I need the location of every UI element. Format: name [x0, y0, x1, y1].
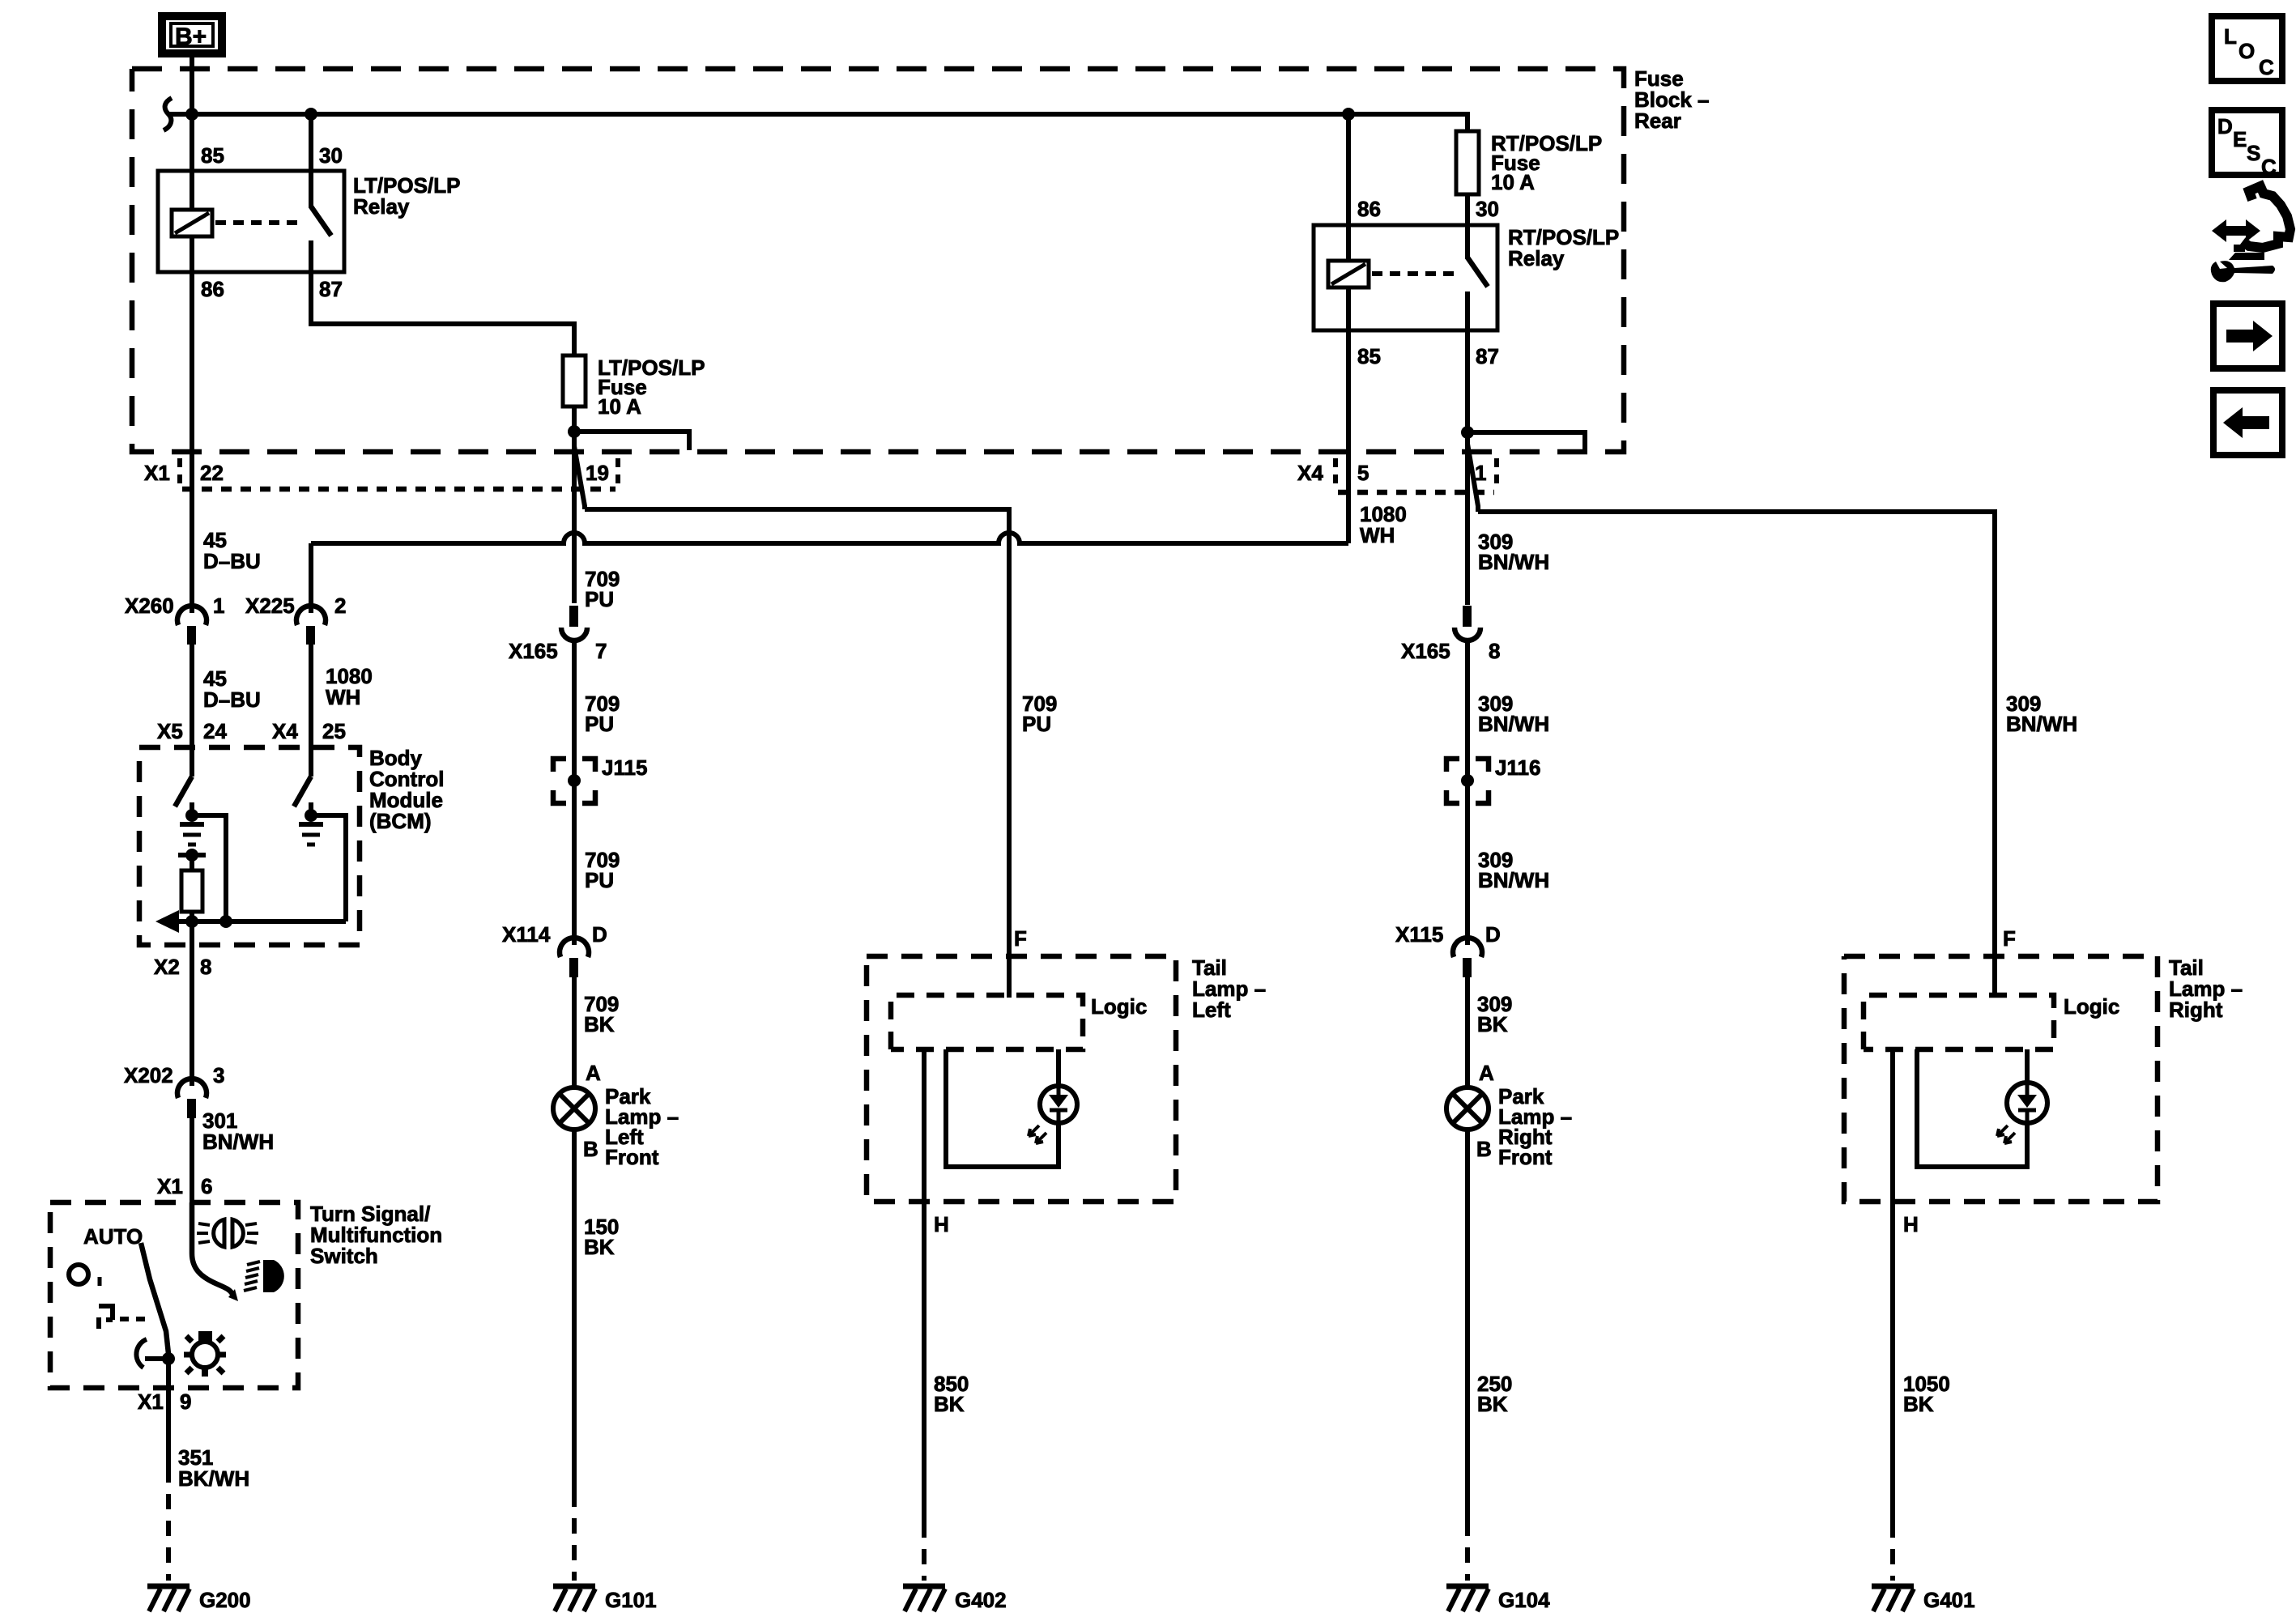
wire sense branch right of pin24: [192, 815, 226, 921]
connector X4 row labels: [1297, 458, 1497, 492]
node junction below RT relay 87: [1461, 426, 1474, 439]
svg-text:B: B: [583, 1137, 598, 1161]
wire LT fuse down: [572, 406, 577, 446]
svg-text:30: 30: [1476, 197, 1499, 221]
svg-text:X4: X4: [1297, 461, 1323, 485]
svg-text:D: D: [1485, 922, 1501, 947]
svg-text:G104: G104: [1498, 1588, 1550, 1612]
svg-text:X2: X2: [154, 955, 180, 979]
bar node above resistor: [178, 853, 206, 857]
fuse block - rear dashed box: [132, 66, 1710, 452]
svg-text:22: 22: [200, 461, 224, 485]
ground G101: [553, 1586, 657, 1612]
wire sense branch right of pin25: [311, 815, 346, 921]
svg-text:85: 85: [201, 143, 224, 168]
svg-text:Logic: Logic: [1091, 994, 1147, 1019]
wire 1080 WH from X225 to X4:5 with hops: [311, 533, 1348, 543]
svg-text:87: 87: [319, 277, 343, 301]
wire LT relay 86 down to X1:22: [190, 272, 194, 489]
svg-text:J116: J116: [1495, 755, 1540, 780]
detent symbol: [99, 1306, 113, 1329]
icon next arrow box: [2213, 304, 2282, 368]
wire X1:22 to X260: [190, 489, 194, 613]
svg-text:X260: X260: [125, 594, 174, 618]
svg-text:AUTO: AUTO: [83, 1224, 143, 1249]
wire step to border (pin19 area): [574, 432, 689, 450]
wire RT relay 87 down: [1465, 330, 1470, 444]
svg-text:WH: WH: [1360, 523, 1395, 547]
connector X1 row labels: [144, 458, 618, 489]
relay LT switch: [309, 171, 313, 208]
svg-text:Relay: Relay: [1508, 246, 1565, 270]
svg-text:H: H: [1903, 1212, 1919, 1236]
wire J115 to X114: [572, 781, 577, 945]
svg-text:A: A: [1479, 1061, 1494, 1085]
connector X115 pin D: [1395, 922, 1501, 977]
splice J115: [553, 755, 647, 803]
relay LT coil: [190, 174, 194, 272]
svg-text:X1: X1: [144, 461, 170, 485]
wire bus to LT relay pin30: [309, 114, 313, 174]
svg-text:85: 85: [1357, 344, 1381, 368]
svg-text:9: 9: [180, 1389, 191, 1414]
logic box left dashed: [891, 994, 1147, 1049]
ground G104: [1446, 1586, 1550, 1612]
svg-text:19: 19: [586, 461, 609, 485]
relay RT/POS/LP: [1314, 197, 1619, 368]
svg-text:X1: X1: [138, 1389, 164, 1414]
connector X165 pin 8: [1401, 606, 1500, 663]
relay LT link dashed: [215, 220, 298, 225]
wire X225 to X4:25: [309, 645, 313, 777]
wire main bus: [168, 114, 1467, 131]
ground symbol internal right: [299, 824, 323, 845]
splice J116: [1446, 755, 1540, 803]
wire internal horizontal with arrow: [160, 919, 346, 924]
switch blade X5:24 in BCM: [175, 777, 192, 806]
node junction bus/relay30: [305, 108, 317, 121]
svg-text:PU: PU: [585, 712, 614, 736]
headlamp low beam icon: [244, 1260, 284, 1292]
svg-text:BK: BK: [1477, 1392, 1508, 1416]
wire dashed to G402: [922, 1522, 926, 1581]
svg-text:BN/WH: BN/WH: [2006, 712, 2077, 736]
BCM body control module dashed box: [139, 746, 444, 945]
fuse LT/POS/LP 10A: [563, 355, 705, 419]
wire pin1 branch to tail lamp right F: [1478, 512, 1995, 998]
auto sensor gear icon: [184, 1331, 226, 1377]
contact stub and node: [190, 802, 194, 815]
svg-text:8: 8: [200, 955, 211, 979]
svg-text:10 A: 10 A: [598, 394, 641, 419]
turn signal / multifunction switch dashed box: [50, 1202, 442, 1388]
wire LT relay 87 to LT fuse: [311, 272, 574, 355]
wire X4:1 down to X165:8: [1465, 444, 1470, 605]
svg-text:G402: G402: [955, 1588, 1007, 1612]
svg-text:BK: BK: [934, 1392, 965, 1416]
svg-text:(BCM): (BCM): [369, 809, 432, 833]
wire X165:7 to J115: [572, 638, 577, 781]
relay RT link dashed: [1372, 271, 1455, 276]
svg-text:Right: Right: [2169, 998, 2223, 1022]
tail lamp right dashed box: [1844, 955, 2243, 1202]
svg-text:B: B: [1476, 1137, 1492, 1161]
ground G402: [903, 1586, 1007, 1612]
wire J116 to X115: [1465, 781, 1470, 945]
svg-text:25: 25: [322, 719, 346, 743]
tail lamp left dashed box: [867, 955, 1266, 1202]
svg-text:X5: X5: [157, 719, 183, 743]
svg-text:BN/WH: BN/WH: [1478, 868, 1549, 892]
wire X114 to park lamp A: [572, 977, 577, 1087]
svg-text:BK: BK: [1903, 1392, 1934, 1416]
svg-text:BN/WH: BN/WH: [1478, 712, 1549, 736]
hook at start of bus: [164, 98, 172, 130]
svg-text:X165: X165: [509, 639, 558, 663]
svg-text:F: F: [1014, 926, 1027, 951]
node contact: [162, 1352, 175, 1365]
svg-text:PU: PU: [585, 587, 614, 611]
svg-text:5: 5: [1357, 461, 1369, 485]
lamp park lamp right front: [1446, 1084, 1572, 1169]
svg-text:24: 24: [203, 719, 227, 743]
connector X260 pin 1: [125, 594, 224, 645]
svg-text:Logic: Logic: [2064, 994, 2119, 1019]
connector X114 pin D: [502, 922, 607, 977]
svg-text:D–BU: D–BU: [203, 687, 261, 712]
wire X225 riser to 1080WH bus: [309, 543, 313, 613]
wire RT fuse feed: [1465, 114, 1470, 131]
svg-text:Front: Front: [1498, 1145, 1553, 1169]
LED lamp left: [1029, 1085, 1077, 1143]
connector X165 pin 7: [509, 606, 607, 663]
wire park lamp B down: [572, 1130, 577, 1491]
svg-text:X225: X225: [245, 594, 295, 618]
svg-text:B+: B+: [175, 23, 207, 50]
svg-text:Switch: Switch: [310, 1244, 378, 1268]
wire B+ down into fuse block: [190, 53, 194, 174]
node junction below LT fuse: [568, 425, 581, 438]
svg-text:J115: J115: [602, 755, 647, 780]
wire LED top: [1056, 1049, 1061, 1085]
wire step to border (pin1 area): [1467, 432, 1585, 450]
svg-text:X1: X1: [157, 1174, 183, 1198]
off position circle: [69, 1265, 88, 1284]
wire X202 to X1:6: [190, 1118, 194, 1255]
wire X260 to X5:24: [190, 645, 194, 777]
svg-text:Rear: Rear: [1634, 109, 1681, 133]
wire H left down: [922, 1049, 926, 1522]
svg-text:L: L: [2224, 24, 2237, 49]
svg-text:X114: X114: [502, 922, 551, 947]
LED lamp right: [1997, 1083, 2047, 1143]
svg-text:7: 7: [595, 639, 607, 663]
svg-text:F: F: [2003, 926, 2016, 951]
svg-text:BK: BK: [584, 1235, 615, 1259]
wire RT fuse to relay 30: [1465, 194, 1470, 225]
svg-text:86: 86: [201, 277, 224, 301]
ground G401: [1872, 1586, 1975, 1612]
relay RT coil: [1346, 225, 1351, 330]
svg-text:A: A: [586, 1061, 601, 1085]
svg-text:Left: Left: [1192, 998, 1231, 1022]
svg-text:1: 1: [213, 594, 224, 618]
svg-text:H: H: [934, 1212, 949, 1236]
wire dashed to G101: [572, 1491, 577, 1581]
contact hook: [136, 1339, 147, 1368]
svg-text:BN/WH: BN/WH: [202, 1130, 274, 1154]
logic box right dashed: [1864, 994, 2119, 1049]
wire logic to LED loop right: [1917, 1049, 2027, 1167]
connector X225 pin 2: [245, 594, 346, 645]
svg-text:G200: G200: [199, 1588, 251, 1612]
svg-text:X4: X4: [272, 719, 298, 743]
svg-text:2: 2: [334, 594, 346, 618]
contact stub and node right: [309, 802, 313, 815]
svg-text:Front: Front: [605, 1145, 659, 1169]
svg-text:10 A: 10 A: [1491, 170, 1535, 194]
svg-text:86: 86: [1357, 197, 1381, 221]
svg-text:30: 30: [319, 143, 343, 168]
wire pin19 down continuation: [572, 446, 577, 603]
lamp park lamp left front: [553, 1084, 679, 1169]
resistor in BCM: [181, 870, 202, 912]
svg-text:PU: PU: [1022, 712, 1051, 736]
svg-text:X115: X115: [1395, 922, 1443, 947]
wire dashed to G401: [1890, 1522, 1895, 1581]
node on horizontal at branch: [219, 915, 232, 928]
relay RT switch: [1465, 225, 1470, 259]
icon LOC box: [2212, 16, 2282, 81]
wire H right down: [1890, 1049, 1895, 1522]
wire pin1 slant: [1467, 444, 1478, 512]
connector X202 pin 3: [124, 1063, 224, 1118]
svg-text:X165: X165: [1401, 639, 1450, 663]
svg-text:BK: BK: [1477, 1012, 1508, 1036]
svg-text:C: C: [2261, 155, 2277, 179]
node junction bus/RT86: [1342, 108, 1355, 121]
wire pin6 into switch with curve lever: [192, 1202, 233, 1296]
wire X165:8 to J116: [1465, 638, 1470, 781]
svg-text:BN/WH: BN/WH: [1478, 550, 1549, 574]
svg-text:BK/WH: BK/WH: [178, 1466, 249, 1491]
relay LT/POS/LP: [158, 143, 460, 301]
fuse RT/POS/LP 10A: [1456, 131, 1602, 194]
svg-text:D: D: [2217, 114, 2233, 138]
svg-text:8: 8: [1489, 639, 1500, 663]
svg-text:PU: PU: [585, 868, 614, 892]
switch blade X4:25 in BCM: [294, 777, 311, 806]
icon hand with wrench: [2211, 186, 2290, 282]
park lamp position icon: [197, 1219, 258, 1247]
icon DESC box: [2212, 110, 2282, 179]
svg-text:3: 3: [213, 1063, 224, 1087]
svg-text:E: E: [2233, 127, 2247, 151]
svg-text:BK: BK: [584, 1012, 615, 1036]
svg-text:1: 1: [1475, 461, 1486, 485]
wire park lamp right B down: [1465, 1130, 1470, 1521]
node junction B+/bus: [185, 108, 198, 121]
svg-text:S: S: [2247, 141, 2260, 165]
svg-text:WH: WH: [326, 685, 360, 709]
wire dashed to G200: [166, 1467, 171, 1581]
svg-text:G401: G401: [1923, 1588, 1975, 1612]
wire RT relay 85 down through X4:5: [1346, 330, 1351, 543]
wire X115 to park lamp A: [1465, 977, 1470, 1087]
ground symbol internal left: [180, 824, 204, 845]
wire logic to LED loop left: [946, 1049, 1059, 1167]
svg-text:D–BU: D–BU: [203, 549, 261, 573]
wire dashed to G104: [1465, 1521, 1470, 1581]
wire bar to resistor: [190, 855, 194, 870]
svg-text:87: 87: [1476, 344, 1499, 368]
B+ power symbol: [162, 16, 222, 53]
switch blade: [141, 1243, 168, 1354]
node on horizontal at resistor: [185, 915, 198, 928]
svg-text:Relay: Relay: [353, 194, 410, 219]
svg-text:O: O: [2238, 39, 2255, 63]
wire bus junction down to RT relay 86: [1346, 114, 1351, 225]
wire pin19 slant: [574, 432, 585, 509]
svg-text:C: C: [2259, 55, 2274, 79]
wire LED top right: [2025, 1049, 2030, 1085]
wire resistor down and out to X2:8: [190, 912, 194, 1086]
wire pin19 branch to tail lamp left F: [585, 509, 1009, 998]
wire contact to X1:9: [166, 1359, 171, 1467]
svg-text:X202: X202: [124, 1063, 173, 1087]
svg-text:6: 6: [201, 1174, 212, 1198]
ground G200: [147, 1586, 251, 1612]
icon back arrow box: [2213, 390, 2282, 455]
svg-text:G101: G101: [605, 1588, 657, 1612]
svg-text:D: D: [592, 922, 607, 947]
arrow output left: [155, 910, 179, 933]
